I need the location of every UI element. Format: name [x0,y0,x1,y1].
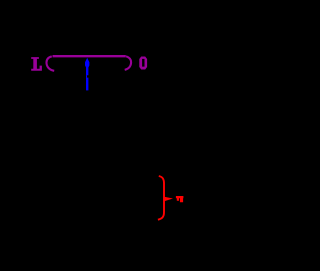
arrow shaft upper [86,63,88,75]
label 0 [139,57,147,70]
label L [31,57,42,71]
interval left parenthesis [47,56,55,70]
brace middle point [164,197,173,202]
arrow head [85,58,89,68]
interval right parenthesis [125,56,131,70]
interval top line [53,55,126,57]
arrow shaft sliver in gap [86,75,88,77]
brace right [158,176,164,220]
arrow shaft lower [86,78,88,91]
label pi [176,196,184,202]
